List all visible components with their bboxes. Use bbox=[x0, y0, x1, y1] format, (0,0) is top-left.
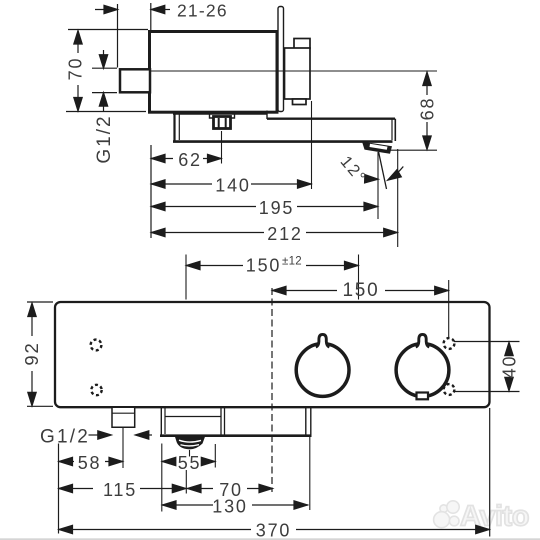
svg-text:92: 92 bbox=[21, 341, 42, 365]
svg-text:195: 195 bbox=[259, 198, 294, 218]
svg-text:150: 150 bbox=[342, 280, 379, 301]
svg-text:Avito: Avito bbox=[460, 501, 529, 533]
svg-text:212: 212 bbox=[267, 224, 302, 244]
svg-text:130: 130 bbox=[212, 496, 247, 516]
svg-text:70: 70 bbox=[66, 57, 86, 81]
svg-text:115: 115 bbox=[103, 480, 137, 500]
svg-text:G1/2: G1/2 bbox=[40, 427, 90, 448]
svg-text:370: 370 bbox=[256, 520, 291, 540]
svg-text:68: 68 bbox=[418, 97, 438, 121]
svg-text:21-26: 21-26 bbox=[177, 0, 228, 20]
svg-text:40: 40 bbox=[500, 355, 520, 379]
svg-text:58: 58 bbox=[78, 453, 102, 473]
svg-text:G1/2: G1/2 bbox=[94, 114, 115, 163]
svg-text:140: 140 bbox=[215, 176, 250, 196]
svg-text:55: 55 bbox=[178, 453, 202, 473]
svg-text:±12: ±12 bbox=[282, 256, 302, 268]
svg-text:150: 150 bbox=[246, 255, 281, 275]
svg-text:62: 62 bbox=[178, 150, 202, 170]
